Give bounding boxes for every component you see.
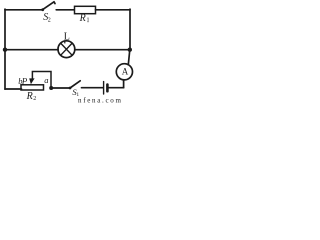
switch S2 blade <box>41 2 55 11</box>
switch S1 blade <box>69 81 81 90</box>
wire junction to ammeter <box>128 50 130 65</box>
wire right vertical upper <box>129 9 131 50</box>
svg-text:L: L <box>64 32 70 43</box>
svg-text:P: P <box>21 76 28 86</box>
svg-text:R: R <box>79 13 86 24</box>
svg-text:2: 2 <box>48 17 51 23</box>
wire top-left horizontal <box>5 9 43 11</box>
rheostat slider P arrow <box>29 78 34 84</box>
label R2 <box>26 91 37 102</box>
speck <box>87 21 89 23</box>
watermark <box>78 97 123 105</box>
label A ammeter <box>122 66 129 76</box>
wire ammeter to bottom corner <box>123 80 125 88</box>
rheostat R2 body <box>21 85 44 90</box>
wire slider bracket <box>32 72 51 89</box>
ammeter A <box>116 64 132 80</box>
label P slider <box>21 76 28 86</box>
svg-text:R: R <box>26 91 33 102</box>
resistor R1 <box>75 6 96 13</box>
label L <box>64 32 70 43</box>
label S2 <box>43 12 51 23</box>
svg-text:2: 2 <box>33 96 36 102</box>
node right junction <box>128 48 132 52</box>
label R1 <box>79 13 90 24</box>
wire left vertical <box>4 9 6 89</box>
svg-text:a: a <box>44 75 48 85</box>
wire battery to S1 <box>82 87 104 89</box>
wire S1 to rheostat tap <box>51 87 70 89</box>
lamp tick mark <box>64 41 66 43</box>
svg-text:A: A <box>122 66 129 76</box>
svg-text:nfena.com: nfena.com <box>78 97 123 105</box>
wire R1 to top-right corner <box>96 9 131 11</box>
label b terminal <box>18 76 22 86</box>
lamp L <box>58 41 75 58</box>
node rheostat tap junction <box>49 86 53 90</box>
wire between S2 and R1 <box>56 9 74 11</box>
label a terminal <box>44 75 48 85</box>
node left junction <box>3 48 7 52</box>
battery cell <box>104 82 108 94</box>
label S1 <box>72 87 79 98</box>
wire bottom right horizontal <box>109 87 124 89</box>
wire bottom left horizontal <box>5 88 22 90</box>
wire middle horizontal right <box>75 49 130 51</box>
wire middle horizontal left <box>5 49 58 51</box>
